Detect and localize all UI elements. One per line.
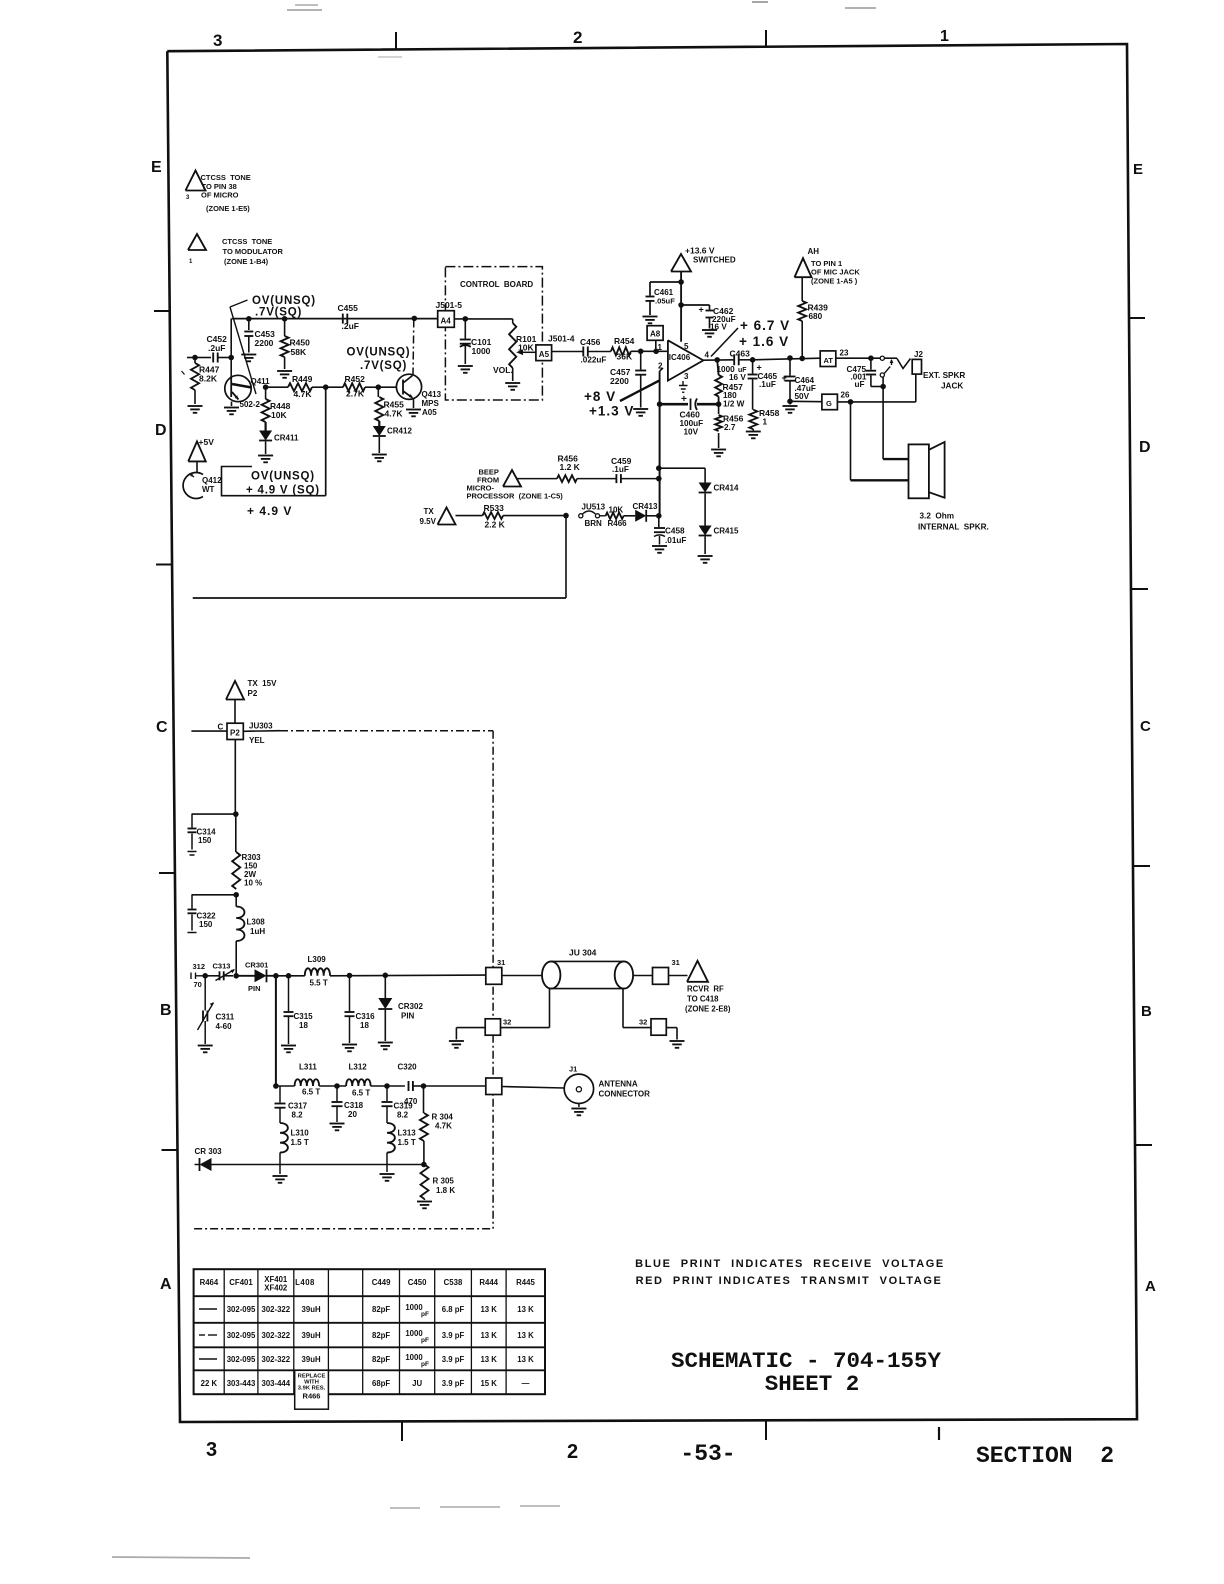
node C101 bbox=[463, 316, 469, 322]
bottom zone tick bbox=[401, 1421, 403, 1441]
node A8 bbox=[653, 349, 659, 355]
capacitor C464 bbox=[782, 358, 816, 401]
svg-text:CR415: CR415 bbox=[714, 527, 739, 536]
svg-text:PROCESSOR (ZONE 1-C5): PROCESSOR (ZONE 1-C5) bbox=[467, 492, 564, 501]
svg-text:.2uF: .2uF bbox=[342, 321, 359, 331]
svg-text:TX: TX bbox=[424, 507, 435, 516]
resistor R447 bbox=[188, 358, 220, 413]
resistor R533 bbox=[483, 503, 567, 530]
svg-text:1.5 T: 1.5 T bbox=[398, 1138, 416, 1147]
top zone tick bbox=[395, 32, 397, 50]
svg-text:+ 6.7 V: + 6.7 V bbox=[740, 318, 790, 333]
resistor R303 bbox=[232, 814, 262, 889]
leader +6.7V bbox=[711, 328, 738, 357]
node C315 bbox=[286, 973, 292, 979]
svg-text:.1uF: .1uF bbox=[612, 465, 629, 474]
svg-text:CR302: CR302 bbox=[398, 1002, 423, 1011]
svg-text:Q413: Q413 bbox=[422, 390, 442, 399]
svg-text:R466: R466 bbox=[303, 1392, 321, 1401]
capacitor C314 bbox=[188, 814, 217, 855]
svg-text:302-322: 302-322 bbox=[261, 1305, 290, 1314]
flag TX bbox=[420, 507, 456, 526]
node CR413 bbox=[656, 513, 662, 519]
svg-text:R 304: R 304 bbox=[432, 1113, 454, 1122]
table header bbox=[200, 1275, 536, 1293]
svg-text:C319: C319 bbox=[394, 1102, 414, 1111]
svg-text:5.5 T: 5.5 T bbox=[310, 979, 328, 988]
node C457 bbox=[638, 349, 644, 355]
wire shield dashdot vertical bbox=[492, 731, 494, 1229]
svg-text:J2: J2 bbox=[914, 350, 923, 359]
svg-text:ANTENNA: ANTENNA bbox=[599, 1080, 638, 1089]
wire long horizontal bbox=[193, 597, 566, 599]
table replace box bbox=[295, 1370, 329, 1409]
svg-text:1.2 K: 1.2 K bbox=[560, 462, 581, 472]
label EXT SPKR JACK bbox=[923, 371, 965, 391]
svg-text:L311: L311 bbox=[299, 1063, 317, 1072]
svg-text:3.9 pF: 3.9 pF bbox=[442, 1355, 465, 1364]
svg-text:RED PRINT INDICATES TRANSMIT: RED PRINT INDICATES TRANSMIT VOLTAGE bbox=[636, 1275, 943, 1287]
svg-text:8.2: 8.2 bbox=[292, 1111, 304, 1120]
svg-text:C538: C538 bbox=[444, 1278, 463, 1287]
svg-text:1: 1 bbox=[763, 418, 768, 427]
svg-text:1000: 1000 bbox=[472, 346, 491, 356]
svg-text:82pF: 82pF bbox=[372, 1355, 390, 1364]
resistor R457 bbox=[715, 360, 744, 409]
label +4.9V bbox=[247, 504, 292, 518]
tick frame bbox=[182, 371, 185, 375]
wire Q411 base drop bbox=[230, 319, 232, 376]
svg-text:13 K: 13 K bbox=[517, 1305, 534, 1314]
svg-text:L309: L309 bbox=[308, 955, 327, 964]
svg-text:P2: P2 bbox=[248, 689, 258, 698]
svg-text:C320: C320 bbox=[398, 1063, 418, 1072]
svg-text:C317: C317 bbox=[288, 1102, 308, 1111]
node R305 top bbox=[421, 1162, 427, 1168]
power flag +5V bbox=[188, 437, 214, 461]
note blue print bbox=[635, 1258, 945, 1270]
svg-text:680: 680 bbox=[809, 312, 823, 321]
inductor L313 bbox=[387, 1123, 416, 1172]
variable capacitor C313 bbox=[205, 962, 234, 981]
title sheet bbox=[765, 1371, 860, 1397]
node C318 bbox=[334, 1083, 340, 1089]
capacitor C463 bbox=[717, 349, 753, 383]
label +1.3V bbox=[589, 404, 634, 419]
node R452-Q413 bbox=[376, 384, 382, 390]
ground C464 bbox=[783, 401, 798, 413]
svg-text:10 %: 10 % bbox=[244, 879, 262, 888]
svg-text:10V: 10V bbox=[684, 428, 699, 437]
voltage box bbox=[222, 467, 326, 496]
capacitor C461 bbox=[643, 282, 682, 323]
capacitor C319 bbox=[382, 1086, 414, 1123]
svg-text:50V: 50V bbox=[795, 392, 810, 401]
svg-text:Q412: Q412 bbox=[202, 476, 222, 485]
svg-text:10K: 10K bbox=[518, 343, 534, 353]
resistor R304 bbox=[420, 1086, 453, 1165]
node CR301 out bbox=[273, 973, 279, 979]
svg-text:8.2: 8.2 bbox=[397, 1111, 409, 1120]
svg-text:CTCSS TONE: CTCSS TONE bbox=[222, 237, 272, 246]
node beep C459 bbox=[656, 476, 662, 482]
power flag AH bbox=[795, 247, 861, 286]
svg-text:CTCSS TONE: CTCSS TONE bbox=[201, 173, 251, 182]
svg-text:CR412: CR412 bbox=[387, 427, 412, 436]
node RF input bbox=[202, 973, 208, 979]
leader +8V bbox=[620, 381, 659, 402]
svg-text:C: C bbox=[218, 723, 224, 732]
svg-text:13 K: 13 K bbox=[517, 1331, 534, 1340]
svg-text:J501-4: J501-4 bbox=[548, 334, 575, 344]
svg-text:2.2 K: 2.2 K bbox=[485, 520, 506, 530]
resistor R450 bbox=[277, 319, 310, 378]
label speaker bbox=[918, 512, 989, 532]
bottom zone mark 1 bbox=[938, 1427, 940, 1440]
svg-text:J501-5: J501-5 bbox=[436, 300, 463, 310]
svg-text:3: 3 bbox=[213, 31, 222, 50]
svg-text:.2uF: .2uF bbox=[208, 343, 225, 353]
inductor L308 bbox=[236, 895, 265, 976]
svg-text:CR413: CR413 bbox=[633, 502, 658, 511]
node R457 bottom bbox=[716, 401, 722, 407]
svg-text:C460: C460 bbox=[680, 410, 701, 420]
connector box 32 left bbox=[485, 1018, 511, 1036]
label J501-4 bbox=[548, 334, 575, 344]
diode CR415 bbox=[698, 526, 739, 563]
svg-text:Q411: Q411 bbox=[251, 377, 271, 386]
connector A5 bbox=[536, 345, 552, 361]
node pin5 branch bbox=[678, 302, 684, 308]
node C319 bbox=[384, 1083, 390, 1089]
connector G bbox=[822, 391, 850, 410]
svg-text:R 305: R 305 bbox=[433, 1177, 455, 1186]
node C464 bottom bbox=[787, 399, 793, 405]
svg-text:6.5 T: 6.5 T bbox=[352, 1089, 370, 1098]
diode CR302 bbox=[378, 975, 424, 1049]
label J501-5 bbox=[436, 300, 463, 310]
svg-text:(ZONE 1-A5 ): (ZONE 1-A5 ) bbox=[811, 277, 858, 286]
diode CR303 bbox=[195, 1147, 223, 1171]
capacitor C315 bbox=[281, 976, 313, 1053]
node C313 right bbox=[233, 973, 239, 979]
connector box 32 right bbox=[639, 1018, 666, 1036]
svg-text:4-60: 4-60 bbox=[216, 1022, 233, 1031]
svg-text:JU: JU bbox=[412, 1379, 422, 1388]
capacitor C320 bbox=[398, 1063, 424, 1107]
svg-text:A5: A5 bbox=[539, 350, 550, 359]
svg-text:OV(UNSQ): OV(UNSQ) bbox=[251, 471, 315, 483]
svg-text:C316: C316 bbox=[356, 1012, 376, 1021]
connector box 31 left bbox=[486, 958, 506, 984]
capacitor C318 bbox=[330, 1086, 364, 1130]
wire rail bbox=[232, 318, 438, 320]
wire A4 to pot bbox=[454, 318, 512, 320]
note red print bbox=[636, 1275, 943, 1287]
control board dashed box bbox=[445, 267, 542, 400]
svg-text:CONTROL BOARD: CONTROL BOARD bbox=[460, 280, 533, 289]
svg-text:+: + bbox=[757, 363, 762, 373]
coax JU304 bbox=[542, 948, 633, 989]
svg-text:C463: C463 bbox=[730, 349, 751, 359]
wire flag P2 bbox=[234, 700, 236, 724]
wire C322 branch bbox=[192, 894, 237, 896]
node C452 left bbox=[192, 355, 198, 361]
node L311 left bbox=[273, 1083, 279, 1089]
left zone tick bbox=[156, 564, 172, 566]
speaker internal bbox=[909, 442, 945, 498]
transistor Q412 (partial) bbox=[183, 473, 222, 499]
node C464 bbox=[787, 355, 793, 361]
svg-text:+ 1.6 V: + 1.6 V bbox=[739, 334, 789, 349]
capacitor C460 bbox=[660, 394, 719, 437]
resistor R458 bbox=[746, 408, 780, 438]
wire TX down bbox=[565, 516, 567, 598]
node C475 top bbox=[868, 355, 874, 361]
svg-text:32: 32 bbox=[639, 1018, 647, 1027]
svg-text:C: C bbox=[1140, 718, 1151, 735]
connector A4 bbox=[438, 311, 455, 328]
svg-text:CR 303: CR 303 bbox=[195, 1147, 223, 1156]
wire to AT bbox=[753, 358, 821, 360]
node rail Q413 bbox=[412, 316, 418, 322]
svg-text:4.7K: 4.7K bbox=[294, 389, 313, 399]
label JU303 bbox=[249, 722, 273, 746]
right zone tick bbox=[1135, 1144, 1152, 1146]
zone letter D left bbox=[155, 422, 167, 439]
node jack ring bbox=[880, 384, 886, 390]
left zone tick bbox=[154, 310, 170, 312]
svg-text:PIN: PIN bbox=[401, 1012, 415, 1021]
svg-text:EXT. SPKR: EXT. SPKR bbox=[923, 371, 965, 380]
wire C320 to J bbox=[424, 1085, 486, 1087]
jack J2 body bbox=[912, 350, 923, 374]
node G bbox=[848, 399, 854, 405]
svg-text:C313: C313 bbox=[213, 962, 231, 971]
svg-text:22 K: 22 K bbox=[201, 1379, 218, 1388]
terminal 312/70 bbox=[191, 962, 205, 989]
capacitor C101 bbox=[458, 319, 492, 373]
svg-text:9.5V: 9.5V bbox=[420, 517, 437, 526]
svg-text:+ 4.9 V: + 4.9 V bbox=[247, 504, 292, 518]
connector AT bbox=[820, 349, 849, 367]
antenna connector J1 bbox=[564, 1065, 593, 1116]
resistor R455 bbox=[375, 387, 404, 421]
right zone tick bbox=[1131, 588, 1148, 590]
svg-text:L308: L308 bbox=[247, 918, 266, 927]
svg-text:302-322: 302-322 bbox=[261, 1331, 290, 1340]
jack tip contact bbox=[880, 356, 884, 360]
svg-text:302-095: 302-095 bbox=[227, 1331, 256, 1340]
svg-text:C456: C456 bbox=[580, 337, 601, 347]
svg-text:31: 31 bbox=[672, 958, 680, 967]
resistor R454 bbox=[611, 336, 668, 362]
resistor R449 bbox=[266, 374, 326, 399]
inductor L311 bbox=[276, 1063, 320, 1097]
svg-text:13 K: 13 K bbox=[480, 1355, 497, 1364]
svg-text:INTERNAL SPKR.: INTERNAL SPKR. bbox=[918, 523, 989, 532]
svg-text:302-095: 302-095 bbox=[227, 1305, 256, 1314]
potentiometer R101 bbox=[493, 319, 537, 390]
svg-text:39uH: 39uH bbox=[302, 1305, 321, 1314]
jack ring contact bbox=[880, 367, 890, 378]
scan noise bbox=[112, 2, 876, 1558]
wire 31 to coax bbox=[502, 975, 542, 977]
wire ring drop bbox=[882, 377, 884, 387]
svg-text:R445: R445 bbox=[516, 1278, 535, 1287]
svg-text:3: 3 bbox=[206, 1439, 217, 1461]
wire to speaker top bbox=[883, 387, 908, 460]
svg-text:10K: 10K bbox=[271, 410, 287, 420]
diode CR414 bbox=[699, 483, 739, 526]
svg-text:2: 2 bbox=[567, 1441, 578, 1463]
capacitor C317 bbox=[275, 1086, 308, 1123]
zone number 3 top bbox=[213, 31, 222, 50]
zone letter C left bbox=[156, 719, 168, 736]
svg-text:1.5 T: 1.5 T bbox=[291, 1138, 309, 1147]
svg-text:C450: C450 bbox=[408, 1278, 427, 1287]
svg-text:4: 4 bbox=[705, 351, 710, 360]
svg-text:3.9 pF: 3.9 pF bbox=[442, 1379, 465, 1388]
left zone tick bbox=[159, 872, 175, 874]
wire flag to Q412 bbox=[196, 461, 198, 472]
svg-text:BRN: BRN bbox=[585, 519, 603, 528]
svg-text:E: E bbox=[1133, 161, 1143, 178]
svg-text:D: D bbox=[1139, 439, 1151, 456]
svg-text:uF: uF bbox=[855, 380, 865, 389]
node C314 bbox=[233, 811, 239, 817]
svg-text:R458: R458 bbox=[759, 408, 780, 418]
svg-text:39uH: 39uH bbox=[302, 1331, 321, 1340]
jack spring bbox=[897, 359, 911, 369]
svg-text:R450: R450 bbox=[290, 338, 311, 348]
svg-text:2200: 2200 bbox=[255, 338, 274, 348]
wire shield left bbox=[501, 989, 550, 1028]
wire R449 node drop bbox=[325, 387, 327, 496]
resistor R452 bbox=[326, 374, 379, 399]
wire JU303 dashdot bbox=[280, 730, 493, 732]
svg-text:6.5 T: 6.5 T bbox=[302, 1088, 320, 1097]
svg-text:+5V: +5V bbox=[199, 437, 215, 447]
flag TX15V P2 bbox=[226, 679, 277, 700]
svg-text:.7V(SQ): .7V(SQ) bbox=[360, 360, 407, 372]
svg-text:L312: L312 bbox=[349, 1063, 368, 1072]
wire 32 right ground bbox=[666, 1028, 684, 1048]
resistor R305 bbox=[417, 1165, 455, 1209]
wire pin2 drop bbox=[660, 368, 663, 404]
connector box J bbox=[486, 1078, 502, 1095]
svg-text:82pF: 82pF bbox=[372, 1331, 390, 1340]
svg-text:A: A bbox=[160, 1276, 172, 1293]
zone number 3 bottom bbox=[206, 1439, 217, 1461]
svg-text:G: G bbox=[826, 399, 832, 408]
svg-text:.01uF: .01uF bbox=[665, 536, 686, 545]
svg-text:2.7: 2.7 bbox=[724, 423, 736, 432]
zone letter D right bbox=[1139, 439, 1151, 456]
flag RCVR RF bbox=[685, 961, 731, 1014]
svg-text:1: 1 bbox=[940, 28, 949, 45]
node C460 left bbox=[657, 401, 663, 407]
svg-text:13 K: 13 K bbox=[480, 1305, 497, 1314]
svg-text:R464: R464 bbox=[200, 1278, 219, 1287]
svg-text:JACK: JACK bbox=[941, 382, 963, 391]
svg-text:C458: C458 bbox=[665, 527, 685, 536]
wire P2 down bbox=[234, 740, 236, 815]
right zone tick bbox=[1129, 317, 1145, 319]
wire P2 left bbox=[191, 730, 227, 732]
jack arm arrow bbox=[890, 359, 894, 365]
svg-text:.05uF: .05uF bbox=[655, 297, 675, 306]
zone letter C right bbox=[1140, 718, 1151, 735]
capacitor C453 bbox=[241, 319, 275, 362]
label +6.7V bbox=[740, 318, 790, 333]
capacitor C455 bbox=[338, 303, 359, 331]
node pin5 top bbox=[678, 279, 684, 285]
svg-text:SECTION 2: SECTION 2 bbox=[976, 1443, 1114, 1469]
resistor R448 bbox=[262, 387, 291, 422]
svg-text:R466: R466 bbox=[608, 519, 628, 528]
svg-text:R533: R533 bbox=[484, 503, 505, 513]
svg-text:OF MICRO: OF MICRO bbox=[201, 191, 239, 200]
wire 32 left ground bbox=[449, 1028, 485, 1048]
node R304 top bbox=[421, 1083, 427, 1089]
wire TX to R533 bbox=[456, 515, 483, 517]
svg-text:A05: A05 bbox=[422, 408, 437, 417]
svg-text:R449: R449 bbox=[292, 374, 313, 384]
transistor Q413 bbox=[378, 374, 441, 417]
label CTCSS TONE 1 bbox=[201, 173, 251, 213]
wire thick vertical bbox=[659, 404, 661, 516]
svg-text:26: 26 bbox=[841, 391, 850, 400]
flag CTCSS tone to modulator bbox=[188, 234, 206, 265]
svg-text:16 V: 16 V bbox=[710, 323, 727, 332]
power flag +13.6V bbox=[671, 246, 736, 272]
wire output bbox=[703, 359, 734, 361]
label +4.9V(SQ) bbox=[246, 485, 320, 497]
wire C314 branch bbox=[192, 813, 236, 815]
right zone tick bbox=[1133, 865, 1150, 867]
svg-text:TX 15V: TX 15V bbox=[248, 679, 278, 688]
svg-text:R456: R456 bbox=[723, 414, 744, 424]
label +8V bbox=[584, 389, 616, 404]
zone letter A right bbox=[1145, 1278, 1156, 1295]
svg-text:2200: 2200 bbox=[610, 376, 629, 386]
connector A8 bbox=[647, 326, 663, 341]
svg-text:IC406: IC406 bbox=[669, 353, 691, 362]
wire G to J2 bbox=[837, 374, 915, 402]
zone number 2 top bbox=[573, 28, 582, 47]
section label bbox=[976, 1443, 1114, 1469]
jumper JU513 bbox=[579, 503, 606, 529]
capacitor C475 bbox=[847, 358, 884, 389]
svg-text:1/2 W: 1/2 W bbox=[723, 400, 745, 409]
svg-text:82pF: 82pF bbox=[372, 1305, 390, 1314]
svg-text:pF: pF bbox=[421, 1311, 429, 1318]
transistor Q411 bbox=[224, 375, 270, 414]
ground L310 bbox=[273, 1176, 288, 1183]
capacitor C459 bbox=[611, 456, 659, 483]
capacitor C311 bbox=[198, 976, 235, 1053]
svg-text:2: 2 bbox=[573, 28, 582, 47]
svg-text:.1uF: .1uF bbox=[759, 380, 776, 389]
resistor R466 bbox=[600, 506, 636, 529]
svg-text:CONNECTOR: CONNECTOR bbox=[599, 1090, 651, 1099]
svg-text:.7V(SQ): .7V(SQ) bbox=[255, 307, 302, 319]
svg-text:C449: C449 bbox=[372, 1278, 391, 1287]
svg-text:MPS: MPS bbox=[422, 399, 440, 408]
page number bbox=[680, 1441, 735, 1467]
svg-text:SHEET 2: SHEET 2 bbox=[765, 1371, 860, 1397]
